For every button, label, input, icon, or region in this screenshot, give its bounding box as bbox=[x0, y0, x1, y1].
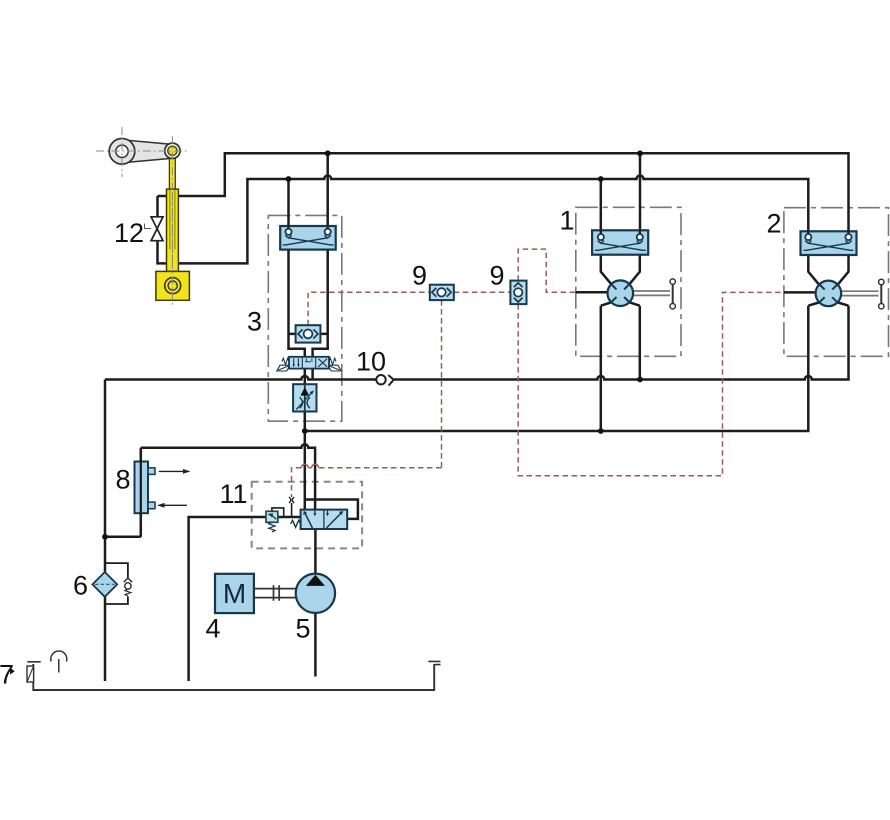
wire valve to line 1 bbox=[311, 369, 314, 380]
wire top line branch to block 1 bbox=[639, 153, 642, 237]
cylinder 12 base bbox=[156, 271, 190, 300]
pilot line 9a bottom to valve 11 bbox=[292, 300, 442, 497]
svg-text:10: 10 bbox=[356, 347, 386, 377]
unloading valve block 11 bbox=[291, 510, 348, 529]
wire cylinder piston-side line to second line bbox=[158, 176, 809, 264]
junction dots bbox=[325, 150, 331, 156]
wire line 2 bbox=[305, 306, 809, 431]
filter 6 bbox=[92, 572, 117, 597]
wire relief drain to tank bbox=[189, 517, 266, 681]
enclosure box valve 11 bbox=[252, 482, 362, 549]
svg-text:9: 9 bbox=[490, 261, 505, 291]
enclosure box block 1 bbox=[576, 207, 681, 356]
pilot line valve 9a to 9b bbox=[454, 291, 511, 293]
tank 7 bbox=[33, 664, 434, 690]
check valve 9 right bbox=[510, 281, 526, 305]
wire cooler riser bbox=[105, 448, 141, 537]
wire relief to valve 11 bbox=[278, 516, 301, 519]
svg-text:1: 1 bbox=[560, 206, 575, 236]
wire top line branch to block 3 bbox=[326, 153, 329, 232]
test point 10 bbox=[376, 375, 393, 386]
lock valve block 1 bbox=[592, 230, 648, 254]
centerline cylinder vertical bbox=[171, 136, 173, 306]
rotary valve block 1 bbox=[608, 279, 676, 309]
svg-text:8: 8 bbox=[116, 465, 131, 495]
pilot line 9b bottom to block 2 bbox=[518, 292, 784, 475]
svg-text:9: 9 bbox=[412, 261, 427, 291]
wire line 1 left drop to filter bbox=[104, 380, 107, 682]
wire block 3 right vertical to valve port bbox=[313, 232, 328, 357]
tank wall ticks bbox=[27, 661, 440, 664]
wire valve 11 right loop bbox=[305, 500, 358, 519]
pilot line block 3 check to valve 9a bbox=[308, 292, 430, 325]
svg-text:3: 3 bbox=[247, 307, 262, 337]
directional valve block 3 bbox=[277, 357, 341, 371]
wire pilot stub block 2 bbox=[784, 291, 816, 294]
pump 5 bbox=[296, 574, 335, 613]
pilot line hops at valve 11 feed bbox=[301, 464, 318, 467]
wire relief pilot loop bbox=[272, 508, 284, 517]
svg-text:5: 5 bbox=[296, 613, 311, 643]
wire cooler line to valve 11 bbox=[141, 444, 315, 509]
wire block 1 neck diagonals bbox=[601, 255, 640, 306]
wire second line branch to block 1 bbox=[600, 179, 603, 237]
pilot check valve block 3 bbox=[296, 325, 321, 342]
wire block 3 check valve stubs bbox=[289, 333, 328, 336]
svg-text:6: 6 bbox=[73, 571, 88, 601]
svg-text:7: 7 bbox=[0, 660, 14, 690]
plugged pilot connection block 11 bbox=[289, 497, 294, 503]
wire valve to flow control bbox=[304, 369, 307, 385]
svg-text:12: 12 bbox=[114, 218, 144, 248]
wire block 1 bottom verticals bbox=[601, 306, 640, 431]
cylinder rod bbox=[169, 151, 175, 190]
shut-off valve 12 bbox=[145, 217, 164, 241]
wire pump suction bbox=[314, 613, 317, 677]
pilot line 9b top to block 1 bbox=[518, 249, 576, 292]
lever rod-end pin bbox=[165, 143, 180, 158]
centerline lever horizontal bbox=[96, 150, 187, 152]
centerline lever pivot vertical bbox=[121, 127, 123, 177]
wire plugged port stub bbox=[291, 503, 293, 517]
wire valve 12 upper stub bbox=[156, 196, 159, 217]
svg-text:M: M bbox=[223, 578, 246, 609]
lever link of cylinder 12 bbox=[109, 139, 170, 165]
bypass check valve of filter 6 bbox=[124, 578, 132, 596]
electric motor 4 bbox=[215, 574, 254, 613]
wire second line branch to block 3 bbox=[287, 179, 290, 232]
shaft coupling bbox=[254, 585, 296, 600]
check valve 9 left bbox=[430, 285, 454, 300]
cylinder 12 barrel bbox=[167, 189, 179, 271]
wire flow control to valve 11 bbox=[304, 412, 307, 510]
lock valve block 3 bbox=[280, 226, 336, 250]
wire rod-side port to top line bbox=[158, 153, 849, 237]
oil cooler 8 bbox=[135, 448, 191, 537]
wire block 3 left vertical to valve port bbox=[289, 232, 305, 357]
relief valve in block 11 bbox=[266, 511, 278, 532]
rotary valve block 2 bbox=[816, 279, 884, 309]
enclosure box block 2 bbox=[784, 208, 889, 357]
wire block 2 neck diagonals bbox=[808, 255, 848, 306]
enclosure box block 3 bbox=[268, 215, 342, 421]
wire filter bypass loop bbox=[105, 563, 128, 604]
svg-text:2: 2 bbox=[767, 209, 782, 239]
flow control valve block 3 bbox=[293, 384, 316, 411]
breather bbox=[51, 651, 67, 672]
lock valve block 2 bbox=[801, 231, 857, 255]
strainer 7 bbox=[10, 666, 34, 682]
wire valve 11 to pump bbox=[314, 529, 317, 574]
svg-text:4: 4 bbox=[206, 613, 221, 643]
svg-text:11: 11 bbox=[220, 479, 248, 509]
wire line 1 bbox=[105, 306, 849, 380]
wire pilot stub block 1 bbox=[576, 291, 608, 294]
